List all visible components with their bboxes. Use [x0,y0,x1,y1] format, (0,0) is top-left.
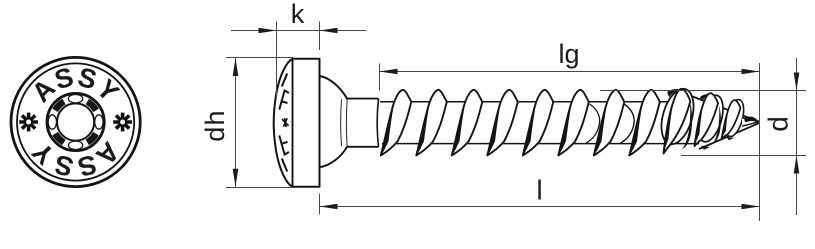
ASSY lettering top [26,62,125,108]
dimension dh arrowheads [233,58,239,76]
head face inner edge line [292,59,294,186]
screw head side view outline [274,59,320,187]
dimension lg arrowheads [380,69,398,75]
tip point [742,118,759,126]
tip shading accents [667,89,678,97]
head top view inner rim circle [17,63,134,180]
tip cone bottom edge [699,123,759,149]
tip helix loop A [656,85,700,148]
helix loop lead-in 1 [586,104,600,143]
svg-text:k: k [291,0,305,29]
thread root top line [380,101,694,103]
dimension k arrowheads [259,28,277,34]
tip thread blade C [722,100,741,139]
thread turn 8 [629,90,660,156]
svg-text:dh: dh [200,109,230,141]
drive recess inner circle [57,103,94,140]
svg-text:l: l [536,175,542,206]
tip helix loop C [722,98,747,139]
head face embossing marks [279,74,289,172]
shared extension line right [759,63,761,221]
thread root bottom line [382,143,699,145]
asterisk marks left and right [19,113,38,132]
dimension d line [796,58,798,215]
svg-text:d: d [762,116,793,132]
dimension k extension lines [276,22,278,98]
thread turn 3 [452,90,483,156]
drive recess petal outlines [48,95,103,150]
thread turn 2 [416,90,447,156]
dimension l arrowheads [320,204,338,210]
helix loop lead-in 2 [621,104,635,143]
dimension d arrowheads [794,73,800,91]
dimension dh line [235,58,237,187]
dimension d extension lines [600,90,806,92]
dimension lg extension line left [379,64,381,91]
svg-text:lg: lg [558,39,579,69]
shank tangent ticks [340,99,343,146]
dimension dh extension lines [226,57,293,59]
tip cone top edge [690,96,759,122]
tip thread blade A [664,89,691,154]
thread turn 5 [523,90,554,156]
thread turn 7 [594,90,625,156]
neck fillet bottom [320,147,379,168]
drive recess lobes [53,100,98,145]
head face star mark [282,118,289,127]
ASSY lettering bottom [26,136,125,182]
dimension l line [320,206,760,208]
dimension lg line [380,71,760,73]
neck fillet top [320,76,379,99]
drive recess outer circle [47,93,104,150]
thread turn 6 [558,90,589,156]
dimension l extension line left [319,194,321,215]
tip helix loop B [693,92,727,144]
thread turn 1 [381,90,412,156]
tip thread blade B [695,93,719,146]
thread turn 4 [487,90,518,156]
dimension k line [231,30,367,32]
head top view outer circle [11,57,140,186]
thread runout arc [377,99,378,147]
